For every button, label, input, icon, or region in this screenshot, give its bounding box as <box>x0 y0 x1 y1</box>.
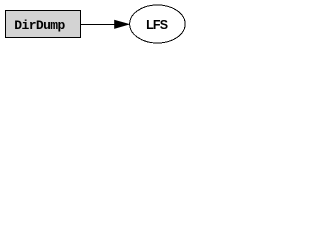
svg-text:LFS: LFS <box>146 18 168 32</box>
svg-text:DirDump: DirDump <box>14 18 65 33</box>
